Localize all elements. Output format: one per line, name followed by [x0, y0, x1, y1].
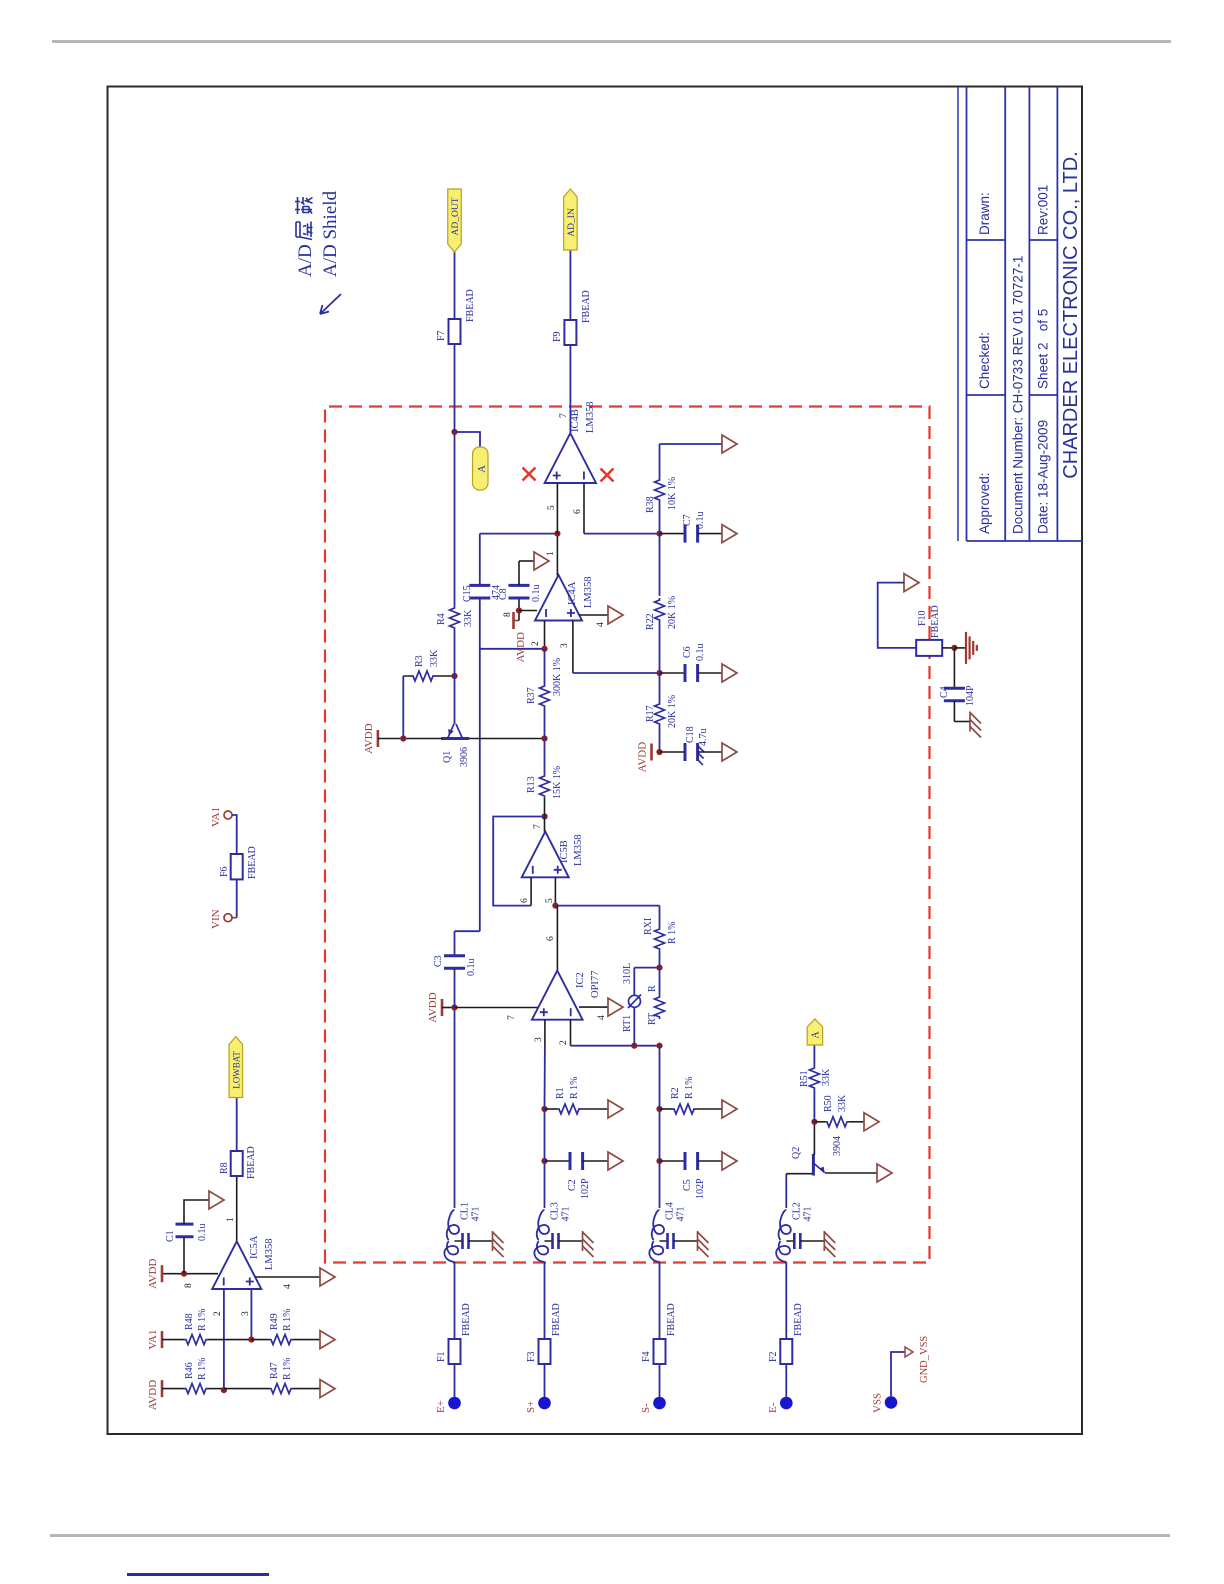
svg-text:10K 1%: 10K 1% — [667, 477, 678, 510]
svg-text:4: 4 — [596, 622, 606, 627]
svg-text:310L: 310L — [622, 963, 633, 984]
C4 earth — [969, 712, 971, 732]
svg-text:33K: 33K — [429, 649, 440, 667]
wire F2 to CL2 — [785, 1262, 787, 1339]
svg-text:4: 4 — [597, 1015, 607, 1020]
IC5B pin6 stub — [530, 877, 532, 905]
CL3 earth — [582, 1231, 584, 1251]
wire R22 to R38 — [659, 502, 661, 596]
A/D shield dashed box — [325, 407, 930, 1263]
wire CL3 to C2 — [544, 1161, 546, 1208]
svg-text:2: 2 — [559, 1040, 569, 1045]
gnd arrow C2 — [608, 1152, 623, 1170]
IC4B pin6 stub — [583, 483, 585, 534]
IC4A pin4 stub — [579, 614, 608, 616]
svg-text:RT: RT — [647, 1013, 658, 1025]
gnd arrow C18 — [722, 743, 737, 761]
wire F4 to CL4 — [659, 1262, 661, 1339]
svg-text:R38: R38 — [645, 496, 656, 513]
svg-text:6: 6 — [546, 936, 556, 941]
junction C6/pin3 — [656, 670, 662, 676]
gnd arrow C8 — [534, 552, 549, 570]
op-amp IC4A — [535, 575, 582, 621]
junction R1 — [541, 1106, 547, 1112]
svg-text:S-: S- — [640, 1403, 652, 1413]
junction R50/R51 — [811, 1119, 817, 1125]
svg-text:VA1: VA1 — [210, 807, 222, 827]
svg-text:R4: R4 — [436, 613, 447, 625]
transistor Q1 — [441, 737, 469, 740]
junction C18/AVDD — [656, 749, 662, 755]
svg-text:IC5A: IC5A — [249, 1235, 260, 1259]
CL4 bypass cap — [660, 1240, 667, 1242]
svg-text:S+: S+ — [525, 1401, 537, 1413]
svg-text:33K: 33K — [463, 609, 474, 627]
wire F6 to VIN — [236, 879, 238, 917]
svg-text:IC4B: IC4B — [570, 409, 581, 432]
resistor R3 — [403, 675, 411, 677]
svg-text:R 1%: R 1% — [282, 1358, 293, 1381]
svg-text:20K 1%: 20K 1% — [667, 596, 678, 629]
AVDD power at R17 — [650, 744, 653, 761]
svg-text:GND_VSS: GND_VSS — [919, 1336, 930, 1383]
svg-text:Sheet 2 of 5: Sheet 2 of 5 — [1036, 309, 1051, 389]
wire C8 to gnd elbow — [518, 561, 520, 585]
CL4 earth — [697, 1231, 699, 1251]
S+ terminal — [538, 1397, 551, 1410]
svg-text:C18: C18 — [685, 726, 696, 743]
gnd arrow R2 — [722, 1100, 737, 1118]
capacitor C1 — [183, 1237, 185, 1274]
IC2 pin4 stub — [579, 1006, 608, 1008]
svg-text:4: 4 — [283, 1284, 293, 1289]
wire AVDD to R17 — [659, 726, 661, 752]
CL2 earth — [823, 1231, 825, 1251]
resistor R1 — [545, 1108, 558, 1110]
net label A (2) — [807, 1019, 823, 1045]
wire F1 to CL1 — [454, 1262, 456, 1339]
wire to R3 — [402, 676, 404, 739]
wire pin2 down — [571, 1045, 660, 1047]
svg-text:AD_OUT: AD_OUT — [451, 197, 461, 235]
junction R3 top — [400, 735, 406, 741]
svg-text:3904: 3904 — [832, 1136, 843, 1156]
svg-text:AVDD: AVDD — [637, 742, 649, 772]
capacitor C6 — [660, 672, 686, 674]
svg-text:F9: F9 — [552, 331, 563, 342]
svg-text:R51: R51 — [799, 1070, 810, 1087]
capacitor C3 — [444, 967, 465, 970]
svg-text:IC2: IC2 — [575, 972, 586, 988]
IC4A pin8 stub — [519, 610, 537, 612]
ferrite bead F2 — [780, 1339, 792, 1364]
wire AVDD node to C3 — [454, 968, 456, 1007]
svg-text:8: 8 — [184, 1283, 194, 1288]
gnd arrow shield — [904, 574, 919, 592]
resistor R51 — [813, 1090, 815, 1122]
wire R4 to AD_OUT node — [454, 432, 456, 606]
ferrite bead F10 — [916, 640, 942, 656]
svg-text:RT1: RT1 — [622, 1015, 633, 1032]
filter CL4 — [649, 1241, 663, 1262]
junction AD_OUT/A — [451, 429, 457, 435]
svg-text:F1: F1 — [436, 1351, 447, 1362]
filter CL3 — [534, 1241, 548, 1262]
svg-text:2: 2 — [531, 641, 541, 646]
S- terminal — [653, 1397, 666, 1410]
resistor R17 — [655, 702, 665, 726]
svg-text:RXI: RXI — [643, 918, 654, 935]
svg-text:471: 471 — [561, 1207, 572, 1222]
svg-text:C8: C8 — [498, 588, 509, 600]
IC4A pin3 stub — [572, 621, 574, 674]
svg-text:471: 471 — [676, 1207, 687, 1222]
junction IC4A out / IC4B pin5 — [554, 530, 560, 536]
svg-text:2: 2 — [213, 1311, 223, 1316]
svg-text:AVDD: AVDD — [427, 992, 439, 1022]
svg-text:Date: 18-Aug-2009: Date: 18-Aug-2009 — [1036, 420, 1051, 534]
gnd arrow R38 — [722, 435, 737, 453]
svg-text:104P: 104P — [965, 685, 976, 706]
svg-text:F6: F6 — [219, 866, 230, 877]
svg-text:FBEAD: FBEAD — [930, 605, 941, 638]
svg-text:C1: C1 — [165, 1230, 176, 1242]
AVDD power at E+ rail — [441, 999, 444, 1016]
svg-text:0.1u: 0.1u — [466, 959, 477, 977]
wire to R37 — [544, 708, 546, 739]
svg-text:R3: R3 — [414, 655, 425, 667]
svg-text:IC5B: IC5B — [559, 840, 570, 863]
VSS terminal — [885, 1396, 898, 1409]
ferrite bead F7 — [449, 319, 461, 344]
svg-text:C7: C7 — [682, 514, 693, 526]
svg-text:LM358: LM358 — [264, 1239, 275, 1271]
frame border — [108, 87, 1083, 1435]
svg-text:R 1%: R 1% — [684, 1077, 695, 1100]
port AD_OUT — [448, 189, 462, 252]
resistor RXI — [655, 927, 665, 951]
svg-text:R 1%: R 1% — [197, 1309, 208, 1332]
CL1 earth — [492, 1231, 494, 1251]
wire R2 to RT node — [659, 1046, 661, 1109]
svg-text:Approved:: Approved: — [977, 472, 992, 534]
svg-text:A/D Shield: A/D Shield — [320, 190, 341, 277]
svg-text:FBEAD: FBEAD — [666, 1303, 677, 1336]
svg-text:300K 1%: 300K 1% — [552, 658, 563, 696]
svg-text:3: 3 — [534, 1037, 544, 1042]
svg-text:R22: R22 — [645, 613, 656, 630]
svg-text:33K: 33K — [821, 1068, 832, 1086]
wire VA1 to F6 — [232, 815, 237, 854]
junction R3/rail — [451, 673, 457, 679]
wire pin3 to S- chain — [573, 672, 660, 674]
svg-text:R49: R49 — [269, 1313, 280, 1330]
svg-text:471: 471 — [471, 1207, 482, 1222]
junction R48/R49 — [248, 1337, 254, 1343]
svg-text:1: 1 — [546, 551, 556, 556]
svg-text:Checked:: Checked: — [977, 332, 992, 389]
title block grid — [967, 540, 1083, 542]
svg-text:7: 7 — [559, 413, 569, 418]
resistor R37 — [540, 684, 550, 708]
svg-text:R48: R48 — [184, 1313, 195, 1330]
junction IC4A pin2 — [541, 646, 547, 652]
svg-text:A: A — [810, 1031, 821, 1039]
AVDD power IC5A — [161, 1265, 164, 1282]
svg-text:Q2: Q2 — [791, 1147, 802, 1159]
svg-text:FBEAD: FBEAD — [551, 1303, 562, 1336]
svg-text:FBEAD: FBEAD — [247, 846, 258, 879]
wire down to IC4B pin5 — [480, 533, 558, 535]
wire C15 to corner — [479, 534, 481, 586]
svg-text:0.1u: 0.1u — [531, 585, 542, 603]
capacitor C7 — [660, 533, 686, 535]
op-amp IC2 — [532, 971, 583, 1020]
svg-text:R46: R46 — [184, 1362, 195, 1379]
wire pin2 drop — [480, 648, 545, 650]
wire F9 to AD_IN — [569, 250, 571, 320]
junction R2 — [656, 1106, 662, 1112]
E+ terminal — [448, 1397, 461, 1410]
IC5A pin1 stub — [236, 1176, 238, 1241]
svg-text:15K 1%: 15K 1% — [552, 766, 563, 799]
svg-text:F7: F7 — [436, 330, 447, 341]
svg-text:R37: R37 — [526, 687, 537, 704]
svg-text:Document Number: CH-0733 REV 0: Document Number: CH-0733 REV 01 70727-1 — [1011, 256, 1026, 534]
svg-text:0.1u: 0.1u — [695, 512, 706, 530]
svg-text:CL1: CL1 — [460, 1202, 471, 1220]
svg-text:F2: F2 — [768, 1351, 779, 1362]
junction RT1 left — [631, 1043, 637, 1049]
svg-text:3: 3 — [560, 643, 570, 648]
svg-text:20K 1%: 20K 1% — [667, 695, 678, 728]
op-amp IC5A — [212, 1241, 261, 1289]
wire CL4 to C5 — [659, 1161, 661, 1208]
wire S- to F4 — [659, 1364, 661, 1397]
svg-text:FBEAD: FBEAD — [465, 289, 476, 322]
thermistor RT1 — [633, 1007, 635, 1045]
filter CL1 — [444, 1241, 458, 1262]
gnd arrow R47 — [320, 1380, 335, 1398]
svg-text:VA1: VA1 — [147, 1330, 159, 1350]
resistor R2 — [660, 1108, 673, 1110]
resistor R13 — [540, 774, 550, 798]
svg-text:6: 6 — [520, 898, 530, 903]
svg-text:C2: C2 — [567, 1179, 578, 1191]
IC2 pin2 stub — [570, 1020, 572, 1046]
svg-text:0.1u: 0.1u — [197, 1224, 208, 1242]
junction IC5B pin5 — [552, 902, 558, 908]
wire pin5 to S- line — [555, 905, 659, 907]
IC2 pin6 out — [556, 906, 558, 971]
wire RT to RXI — [659, 951, 661, 995]
svg-text:FBEAD: FBEAD — [793, 1303, 804, 1336]
wire CL2 to Q2 base — [785, 1174, 787, 1208]
wire R8 to LOWBAT — [236, 1097, 238, 1151]
svg-text:IC4A: IC4A — [567, 581, 578, 605]
svg-text:R1: R1 — [555, 1087, 566, 1099]
gnd arrow R1 — [608, 1100, 623, 1118]
svg-text:3: 3 — [241, 1311, 251, 1316]
svg-text:FBEAD: FBEAD — [246, 1146, 257, 1179]
junction R46/R47 — [221, 1387, 227, 1393]
svg-text:1: 1 — [226, 1217, 236, 1222]
svg-text:R 1%: R 1% — [667, 922, 678, 945]
svg-text:C6: C6 — [682, 646, 693, 658]
IC5B feedback loop — [493, 817, 544, 906]
svg-text:R47: R47 — [269, 1362, 280, 1379]
junction RT right — [656, 965, 662, 971]
junction E+/AVDD — [451, 1004, 457, 1010]
op-amp IC5B — [522, 832, 569, 878]
wire E+ to F1 — [454, 1364, 456, 1397]
junction RT left — [656, 1043, 662, 1049]
svg-text:R13: R13 — [526, 776, 537, 793]
svg-text:LM358: LM358 — [585, 402, 596, 434]
wire E- to F2 — [785, 1364, 787, 1397]
svg-text:F4: F4 — [641, 1351, 652, 1362]
svg-text:C15: C15 — [462, 585, 473, 602]
CL2 bypass cap — [786, 1240, 793, 1242]
svg-text:CL2: CL2 — [791, 1202, 802, 1220]
svg-text:AVDD: AVDD — [147, 1380, 159, 1410]
filter CL2 — [776, 1241, 790, 1262]
ferrite bead R8 — [231, 1151, 243, 1176]
capacitor C2 — [545, 1160, 571, 1162]
svg-text:E+: E+ — [435, 1400, 447, 1413]
wire F10 to gnd node — [942, 647, 954, 649]
gnd arrow IC5A — [320, 1268, 335, 1286]
IC4A pin1 stub — [556, 534, 558, 576]
wire R17 to C6 node — [659, 622, 661, 702]
svg-text:7: 7 — [507, 1015, 517, 1020]
junction C1 — [181, 1271, 187, 1277]
IC5B pin7 stub — [544, 817, 546, 832]
ferrite bead F6 — [231, 854, 243, 879]
svg-text:R 1%: R 1% — [197, 1358, 208, 1381]
svg-text:R 1%: R 1% — [282, 1309, 293, 1332]
gnd arrow C7 — [722, 525, 737, 543]
svg-text:E-: E- — [767, 1402, 779, 1413]
svg-text:3906: 3906 — [459, 747, 470, 767]
svg-text:A/D: A/D — [295, 244, 316, 277]
wire F3 to CL3 — [544, 1262, 546, 1339]
ferrite bead F9 — [564, 320, 576, 345]
VA1 power R48 — [161, 1331, 164, 1348]
svg-text:4.7u: 4.7u — [698, 729, 709, 747]
svg-text:R17: R17 — [645, 705, 656, 722]
AVDD power for IC4A — [512, 612, 515, 629]
svg-text:FBEAD: FBEAD — [461, 1303, 472, 1336]
IC2 pin7 stub — [455, 1007, 539, 1009]
svg-text:R8: R8 — [219, 1162, 230, 1174]
gnd arrow IC4A — [608, 606, 623, 624]
svg-text:C3: C3 — [433, 955, 444, 967]
resistor R38 — [655, 478, 665, 502]
svg-text:OPI77: OPI77 — [590, 971, 601, 998]
svg-text:F10: F10 — [917, 610, 928, 626]
gnd arrow R50 — [864, 1113, 879, 1131]
wire R37 to pin2 node — [544, 649, 546, 684]
gnd arrow IC2 — [608, 998, 623, 1016]
junction pin8 — [516, 607, 522, 613]
capacitor C4 — [944, 699, 965, 702]
CL1 bypass cap — [455, 1240, 462, 1242]
IC4A pin2 stub — [544, 621, 546, 649]
IC5B pin5 stub — [554, 877, 556, 905]
x mark lower — [601, 469, 614, 482]
wire corner down to feedback rail — [455, 930, 480, 932]
VA1 terminal — [224, 811, 232, 819]
wire rail to C15 — [479, 598, 481, 931]
capacitor C8 — [509, 597, 530, 600]
VIN terminal — [224, 914, 232, 922]
gnd arrow C5 — [722, 1152, 737, 1170]
svg-text:R2: R2 — [670, 1087, 681, 1099]
wire pin6 to R38 node — [584, 533, 660, 535]
IC5A pin4 stub — [255, 1276, 320, 1278]
svg-text:CL3: CL3 — [550, 1202, 561, 1220]
svg-text:LOWBAT: LOWBAT — [231, 1051, 241, 1089]
junction Q1/R37 line — [541, 735, 547, 741]
wire F7 to AD_OUT — [454, 252, 456, 319]
svg-text:6: 6 — [573, 509, 583, 514]
wire VSS — [891, 1352, 905, 1396]
junction pin6/C7/R38 — [656, 530, 662, 536]
resistor R50 — [814, 1121, 825, 1123]
gnd arrow C1 — [209, 1191, 224, 1209]
svg-text:LM358: LM358 — [573, 835, 584, 867]
svg-text:F3: F3 — [526, 1351, 537, 1362]
svg-text:Q1: Q1 — [442, 751, 453, 763]
svg-text:102P: 102P — [695, 1178, 706, 1199]
wire CL1 to AVDD node — [454, 1008, 456, 1209]
GND_VSS arrow — [905, 1347, 913, 1357]
svg-text:LM358: LM358 — [583, 577, 594, 609]
svg-text:Rev:001: Rev:001 — [1036, 185, 1051, 235]
junction C2 — [541, 1158, 547, 1164]
E- terminal — [780, 1397, 793, 1410]
svg-text:C5: C5 — [682, 1179, 693, 1191]
resistor RT — [655, 995, 665, 1019]
svg-text:A: A — [477, 465, 488, 473]
wire S+ to F3 — [544, 1364, 546, 1397]
svg-text:5: 5 — [545, 898, 555, 903]
Q2 emitter to gnd — [825, 1172, 877, 1174]
wire R38 to gnd corner — [659, 444, 661, 478]
gnd arrow Q2 — [877, 1164, 892, 1182]
junction C5 — [656, 1158, 662, 1164]
wire AVDD to Q1 — [403, 738, 441, 740]
capacitor C18 — [660, 751, 686, 753]
svg-text:102P: 102P — [580, 1178, 591, 1199]
signal gnd bars — [954, 647, 966, 649]
junction F10/C4 — [951, 645, 957, 651]
svg-text:VSS: VSS — [872, 1393, 884, 1413]
transistor Q2 — [812, 1154, 815, 1176]
svg-text:VIN: VIN — [210, 909, 222, 929]
IC5A pin3 line — [250, 1289, 252, 1340]
gnd arrow C6 — [722, 664, 737, 682]
svg-text:33K: 33K — [837, 1094, 848, 1112]
svg-text:8: 8 — [503, 612, 513, 617]
svg-text:471: 471 — [802, 1207, 813, 1222]
resistor R47 — [224, 1388, 269, 1390]
IC5A pin8 stub — [162, 1273, 218, 1275]
wire R1 to IC2 pin3 — [544, 1045, 546, 1109]
ferrite bead F4 — [654, 1339, 666, 1364]
op-amp IC4B — [545, 433, 596, 483]
